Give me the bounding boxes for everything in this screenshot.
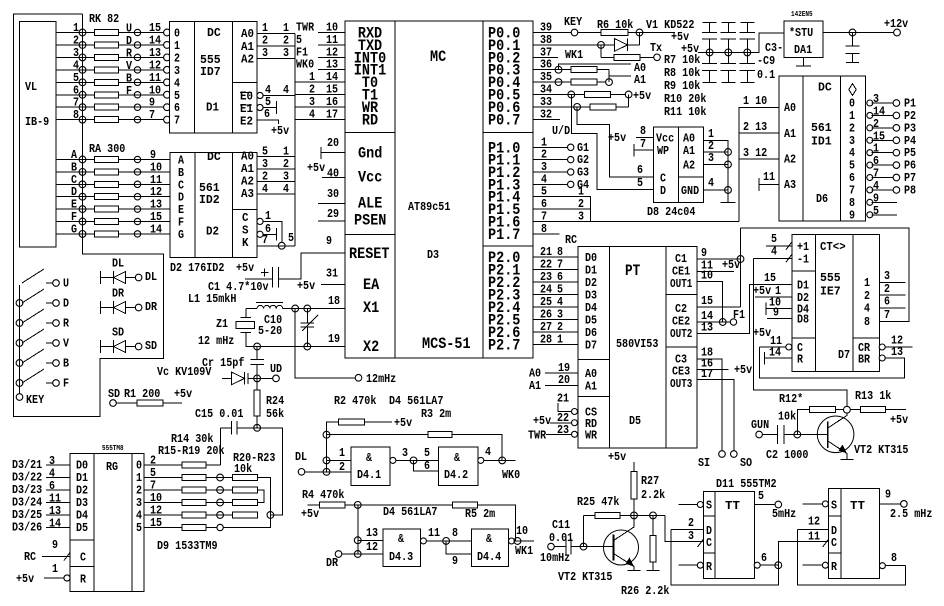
junction base VT2a: [794, 431, 801, 438]
wire 12mHz tap: [295, 309, 355, 378]
wire ladder row 3: [206, 502, 232, 504]
svg-text:555: 555: [820, 271, 841, 285]
svg-text:14: 14: [150, 222, 162, 236]
pin bubble ID1 out 8: [867, 199, 873, 205]
svg-text:5mHz: 5mHz: [772, 507, 796, 521]
wire MCU X1 pin 18: [307, 308, 345, 310]
svg-text:L1 15mkH: L1 15mkH: [188, 292, 236, 306]
junction X2 row a: [254, 343, 261, 350]
ground D8: [721, 202, 736, 204]
svg-text:SO: SO: [740, 456, 752, 470]
bubble TT1 Qbar: [754, 562, 760, 568]
wire D8 GND pin 4: [704, 189, 729, 191]
wire D1 A2 to bus: [257, 58, 295, 60]
wire row5 to bracket: [224, 515, 271, 528]
resistor on P0.6: [590, 104, 616, 110]
resistor RK82 #2: [95, 42, 119, 48]
svg-text:BR: BR: [858, 353, 871, 367]
svg-text:142EN5: 142EN5: [791, 11, 813, 19]
junction circle RK82 row 4: [134, 67, 140, 73]
svg-text:DL: DL: [295, 450, 307, 464]
svg-text:0.01: 0.01: [549, 531, 573, 545]
wire P2.1 to PT D1: [533, 269, 578, 271]
wire P1.1 to G2: [533, 159, 567, 161]
resistor RA300 #5: [95, 206, 119, 212]
wire P1.4 tag 1: [533, 197, 591, 222]
svg-text:13: 13: [891, 345, 903, 359]
svg-text:G: G: [71, 222, 77, 236]
wire TT1 D input: [671, 528, 703, 530]
svg-text:14: 14: [769, 346, 781, 360]
wire U/D net down to D8 D pin: [571, 95, 653, 190]
slash TT2 C: [823, 539, 829, 547]
wire ladder row 5 out: [206, 527, 217, 529]
svg-text:10k: 10k: [778, 410, 796, 424]
svg-text:R8 10k: R8 10k: [664, 66, 700, 80]
wire CT D8 pin 9: [767, 318, 792, 320]
wire RG input D4: [46, 514, 70, 516]
junction circle RA300 row A: [134, 156, 140, 162]
wire MCU pin 14 stub: [295, 81, 345, 83]
svg-text:R3 2m: R3 2m: [421, 407, 451, 421]
wire RG output 2: [144, 489, 182, 491]
resistor R4: [307, 504, 319, 506]
svg-text:-C9: -C9: [757, 54, 775, 68]
wire TT1 Qbar to TT2 C: [778, 541, 828, 565]
wire stair pin9: [446, 541, 471, 554]
svg-text:32: 32: [540, 107, 552, 121]
wire P1.2 to G3: [533, 171, 567, 173]
timer D5 580VI53 body: [578, 247, 697, 448]
node RA300 row F bus junction: [79, 218, 86, 225]
svg-text:P0.7: P0.7: [488, 111, 520, 129]
capacitor Cr 15pf: [256, 347, 258, 360]
svg-text:+5v: +5v: [297, 279, 315, 293]
svg-text:D7: D7: [585, 339, 597, 353]
svg-text:VT2 KT315: VT2 KT315: [558, 570, 612, 584]
wire RG input D1: [46, 477, 70, 479]
terminal G4: [568, 181, 574, 187]
wire CT out4 pin 6: [879, 307, 905, 309]
node RK82 row 1 bus junction: [79, 29, 86, 36]
wire R14 row to C15: [206, 464, 218, 466]
wire TT2 Qbar pin 8: [885, 565, 905, 567]
resistor RA300 #6: [95, 219, 119, 225]
resistor network RK82 row 3 wire: [56, 56, 167, 58]
wire RG output 4: [144, 514, 182, 516]
svg-text:40: 40: [327, 166, 339, 180]
capacitor at +12v: [852, 33, 854, 47]
wire D1 E1 tied: [263, 107, 276, 109]
svg-text:7: 7: [884, 308, 890, 322]
resistor R21 10k: [232, 487, 257, 493]
tie bar D2 S: [276, 228, 278, 241]
terminal UD: [273, 375, 280, 382]
junction circle RA300 row F: [134, 218, 140, 224]
wire WK1 output: [515, 540, 534, 542]
svg-text:11: 11: [808, 530, 820, 544]
svg-text:TT: TT: [725, 499, 740, 513]
capacitor C15: [220, 427, 231, 429]
resistor on P0.5: [585, 92, 611, 98]
svg-text:R: R: [80, 573, 87, 587]
svg-text:GND: GND: [681, 184, 699, 198]
svg-text:3: 3: [578, 209, 584, 223]
svg-text:+5v: +5v: [633, 89, 651, 103]
junction WK0: [499, 457, 506, 464]
svg-text:14: 14: [49, 517, 61, 531]
wire CT out2 pin 2: [879, 294, 905, 296]
resistor R1: [117, 402, 138, 404]
svg-text:R12*: R12*: [779, 392, 803, 406]
wire D4.1 out pin3: [396, 459, 439, 461]
terminal SI: [719, 451, 726, 458]
svg-text:6: 6: [761, 551, 767, 565]
svg-text:9: 9: [452, 554, 458, 568]
svg-text:P1.7: P1.7: [488, 226, 520, 244]
wire D1 A1 to bus: [257, 45, 295, 47]
resistor network RK82 row 2 wire: [56, 44, 167, 46]
svg-text:C11: C11: [552, 518, 570, 532]
svg-text:9: 9: [885, 488, 891, 502]
pin bubble D1 input 0: [164, 29, 171, 36]
svg-text:5: 5: [637, 176, 643, 190]
bubble CT CR pin 12: [879, 344, 885, 350]
resistor RA300 #4: [95, 194, 119, 200]
svg-text:580VI53: 580VI53: [616, 337, 658, 351]
junction circle RK82 row 6: [134, 92, 140, 98]
svg-text:8: 8: [891, 551, 897, 565]
pin bubble ID1 out 7: [867, 187, 873, 193]
wire ladder row 1: [206, 477, 232, 479]
svg-text:D5: D5: [629, 414, 641, 428]
resistor RA300 #1: [95, 157, 119, 163]
terminal GUN: [756, 431, 763, 438]
svg-text:KEY: KEY: [26, 393, 45, 407]
svg-text:OUT3: OUT3: [670, 377, 692, 391]
svg-text:12 mHz: 12 mHz: [198, 334, 234, 348]
svg-text:D3: D3: [427, 248, 439, 262]
wire P0.4 row: [533, 81, 606, 83]
svg-text:A2: A2: [683, 159, 695, 173]
svg-text:15: 15: [701, 294, 713, 308]
svg-text:2.2k: 2.2k: [641, 488, 665, 502]
junction ladder row 2: [217, 487, 224, 494]
resistor ladder R16: [182, 487, 206, 493]
node RK82 row 6 bus junction: [79, 91, 86, 98]
svg-text:R15-R19 20k: R15-R19 20k: [158, 444, 225, 458]
junction R26 node: [650, 512, 657, 519]
svg-text:R10 20k: R10 20k: [664, 92, 706, 106]
svg-text:10: 10: [701, 269, 713, 283]
resistor RK82 #3: [95, 54, 119, 60]
svg-text:UD: UD: [270, 362, 282, 376]
svg-text:X1: X1: [363, 299, 379, 317]
resistor network RK82 row 4 wire: [56, 69, 167, 71]
wire TT1 D feedback: [671, 529, 778, 585]
svg-text:K: K: [242, 236, 249, 250]
svg-text:RK 82: RK 82: [89, 12, 119, 26]
wire pin13: [358, 539, 383, 541]
pin bubble D2 S: [257, 231, 263, 237]
pin bubble ID1 out 2: [867, 125, 873, 131]
svg-text:5: 5: [424, 446, 430, 460]
wire PT CE2 pin 14: [697, 321, 730, 323]
svg-text:R: R: [797, 353, 804, 367]
pin bubble D1 input 3: [164, 66, 171, 73]
junction ladder row 1: [217, 474, 224, 481]
switch R: [16, 320, 23, 327]
wire P0.7 stub: [533, 118, 560, 120]
svg-text:A0: A0: [784, 101, 796, 115]
junction circle RA300 row E: [134, 206, 140, 212]
terminal +12v: [894, 29, 901, 36]
svg-text:8: 8: [864, 315, 870, 329]
crystal Z1: [245, 309, 247, 318]
svg-text:1: 1: [52, 562, 58, 576]
wire ID1 out pin 2: [872, 127, 893, 129]
wire pin1: [327, 459, 352, 461]
svg-text:ID1: ID1: [811, 135, 832, 149]
pin bubble D1 input 6: [164, 104, 171, 111]
resistor R27 2.2k: [633, 462, 635, 472]
svg-text:17: 17: [326, 107, 338, 121]
wire RG C pin 9: [42, 556, 70, 558]
resistor R24 56k: [256, 378, 258, 390]
switch bus vertical: [19, 285, 21, 397]
capacitor bank bottom #2: [727, 52, 729, 63]
terminal P4: [893, 137, 900, 144]
svg-text:R1 200: R1 200: [124, 387, 160, 401]
wire PT C2 pin 15: [697, 306, 741, 308]
svg-text:+5v: +5v: [890, 413, 908, 427]
svg-text:555TM8: 555TM8: [102, 445, 124, 453]
wire P1.3 to G4: [533, 183, 567, 185]
wire P2.6 to PT D6: [533, 331, 578, 333]
switch D: [16, 300, 23, 307]
svg-text:+12v: +12v: [884, 17, 908, 31]
capacitor bank bottom #1: [709, 52, 711, 63]
bubble TT2 S: [822, 501, 828, 507]
svg-text:SI: SI: [698, 456, 710, 470]
junction WK1: [514, 538, 521, 545]
svg-text:7: 7: [262, 233, 268, 247]
wire D4.3 out pin11: [426, 540, 471, 542]
wire PT CS pin 21: [558, 403, 572, 412]
decoder D2 561ID2 body: [170, 153, 257, 258]
wire RG input D0: [46, 464, 70, 466]
svg-text:DL: DL: [145, 270, 157, 284]
bubble CT C pin 11: [786, 344, 792, 350]
wire ID1 A1 input: [739, 132, 779, 134]
svg-text:D: D: [63, 297, 69, 311]
junction circle RK82 row 1: [134, 29, 140, 35]
eeprom D8 24c04 body: [654, 127, 704, 203]
wire D1 E0 to bus: [263, 95, 295, 97]
svg-text:DC: DC: [207, 26, 221, 40]
svg-text:4: 4: [262, 182, 268, 196]
bubble D4.2 output: [478, 457, 484, 463]
svg-text:A3: A3: [784, 178, 796, 192]
svg-text:VT2 KT315: VT2 KT315: [854, 443, 908, 457]
resistor network RK82 row 7 wire: [56, 106, 167, 108]
switch V: [16, 340, 23, 347]
svg-text:5-20: 5-20: [258, 324, 282, 338]
wire TT1 Qbar pin 6: [760, 564, 778, 566]
plus sign C1: [261, 272, 269, 274]
svg-text:4: 4: [771, 245, 777, 259]
node RA300 row D bus junction: [79, 193, 86, 200]
wire PT CE1 pin 11 +5v: [697, 271, 734, 273]
resistor ladder R18: [182, 512, 206, 518]
svg-text:D4.4: D4.4: [477, 550, 501, 564]
resistor RK82 #7: [95, 104, 119, 110]
switch F: [16, 380, 23, 387]
junction R2 node: [323, 431, 330, 438]
bubble D4.3 output: [420, 538, 426, 544]
junction ladder row 4: [217, 512, 224, 519]
resistor ladder R15: [182, 475, 206, 481]
svg-text:3: 3: [708, 151, 714, 165]
svg-text:C: C: [831, 536, 837, 550]
svg-text:SD: SD: [112, 326, 124, 340]
wire P0.6 down to D8 C pin: [577, 107, 654, 177]
svg-text:29: 29: [327, 207, 339, 221]
wire PT CE3 pin 16: [697, 368, 729, 370]
flip-flop TT2 body: [829, 489, 880, 579]
resistor Tx: [601, 56, 614, 58]
wire D2 A pin 4-4 to bus: [257, 193, 295, 195]
svg-text:D3/26: D3/26: [12, 521, 42, 535]
svg-text:7: 7: [174, 114, 180, 128]
svg-text:R: R: [831, 560, 838, 574]
svg-text:15: 15: [150, 516, 162, 530]
resistor R23 10k: [232, 512, 257, 518]
wire osc to TT1 C: [665, 515, 703, 541]
wire A1 tap: [608, 70, 610, 82]
svg-text:DL: DL: [112, 257, 124, 271]
svg-text:A2: A2: [784, 153, 796, 167]
junction P0.1: [598, 42, 605, 49]
wire +5v rail vertical: [628, 95, 630, 107]
wire CT R pin 14 tied: [763, 352, 765, 365]
svg-text:&: &: [486, 532, 493, 546]
junction pin3: [410, 457, 417, 464]
junction R12 R13 node: [844, 406, 851, 413]
wire CT out1 pin 3: [879, 282, 905, 284]
wire R4 node vertical: [357, 505, 359, 554]
wire MCU pin 16 stub: [295, 106, 345, 108]
capacitor bank top #3: [740, 21, 754, 23]
wire MCU pin 12 stub: [318, 56, 345, 58]
wire TT1 S input: [679, 504, 698, 506]
resistor network RA300 row A wire: [56, 159, 170, 161]
svg-text:9: 9: [52, 538, 58, 552]
wire P2.0 to PT D0: [533, 256, 578, 258]
wire stair to pin6: [414, 460, 439, 471]
svg-text:A1: A1: [585, 380, 597, 394]
svg-text:R4 470k: R4 470k: [302, 488, 344, 502]
svg-text:1: 1: [339, 446, 345, 460]
junction pin13: [354, 537, 361, 544]
svg-text:D4 561LA7: D4 561LA7: [383, 505, 437, 519]
svg-text:+5v: +5v: [307, 161, 325, 175]
diamond symbol: [849, 84, 856, 96]
resistor R20 10k: [232, 475, 257, 481]
pin bubble ID1 out 3: [867, 137, 873, 143]
svg-text:D8 24c04: D8 24c04: [647, 205, 695, 219]
wire D2 K pin 7: [257, 245, 295, 247]
wire P1.7 RC stub: [533, 233, 559, 235]
svg-text:8: 8: [541, 222, 547, 236]
resistor network RK82 row 1 wire: [56, 32, 167, 34]
capacitor C11: [554, 546, 566, 548]
terminal P1: [893, 100, 900, 107]
terminal P8: [893, 187, 900, 194]
svg-text:R11 10k: R11 10k: [664, 105, 706, 119]
counter D6 561ID1 body: [779, 76, 866, 221]
svg-text:SD: SD: [108, 387, 120, 401]
svg-text:18: 18: [328, 294, 340, 308]
terminal SD: [110, 400, 117, 407]
wire ID1 out pin 7: [872, 177, 893, 179]
wire P1.0 to G1: [533, 146, 567, 148]
switch U: [22, 269, 44, 283]
wire RG output 0: [144, 464, 182, 466]
node RK82 row 3 bus junction: [79, 54, 86, 61]
svg-text:DR: DR: [145, 300, 158, 314]
svg-text:13: 13: [701, 321, 713, 335]
svg-text:RESET: RESET: [349, 245, 390, 263]
wire ID1 out pin 1: [872, 152, 893, 154]
svg-text:P8: P8: [904, 183, 916, 197]
wire DL to gate pin2: [305, 471, 351, 473]
svg-text:R24: R24: [266, 394, 284, 408]
wire -1 net to R12 R13 node: [753, 258, 847, 406]
wire WK0 output: [484, 459, 516, 461]
pin bubble ID1 out 5: [867, 162, 873, 168]
svg-text:56k: 56k: [266, 407, 284, 421]
wire CT D2 pin 1 +5v: [755, 296, 792, 298]
junction TT1 Qbar: [775, 562, 782, 569]
svg-text:A1: A1: [683, 144, 695, 158]
resistor R22 10k: [232, 500, 257, 506]
node RA300 row C bus junction: [79, 181, 86, 188]
junction cap bank #2: [725, 49, 732, 56]
wire R24 node to ladder: [257, 428, 283, 515]
bracket R20R23 inner: [258, 490, 264, 503]
svg-text:DC: DC: [818, 81, 832, 95]
svg-text:V: V: [63, 337, 70, 351]
capacitor bank bottom #3: [746, 52, 748, 63]
wire R25 to base: [583, 515, 585, 546]
inductor L1: [246, 308, 257, 310]
junction P0.5 left: [568, 91, 575, 98]
junction circle RK82 row 8: [134, 116, 140, 122]
resistor RK82 #5: [95, 79, 119, 85]
svg-text:RD: RD: [362, 111, 378, 129]
wire D1 E2: [257, 120, 279, 124]
bubble CT BR pin 13: [879, 355, 885, 361]
svg-text:28: 28: [540, 333, 552, 347]
circle ladder row 5: [217, 524, 223, 530]
svg-text:31: 31: [326, 267, 338, 281]
svg-text:VL: VL: [25, 80, 37, 94]
bubble TT2 R: [822, 562, 828, 568]
wire P0.0 KEY row: [533, 32, 571, 34]
svg-text:3: 3: [262, 46, 268, 60]
resistor network RA300 row E wire: [56, 208, 170, 210]
